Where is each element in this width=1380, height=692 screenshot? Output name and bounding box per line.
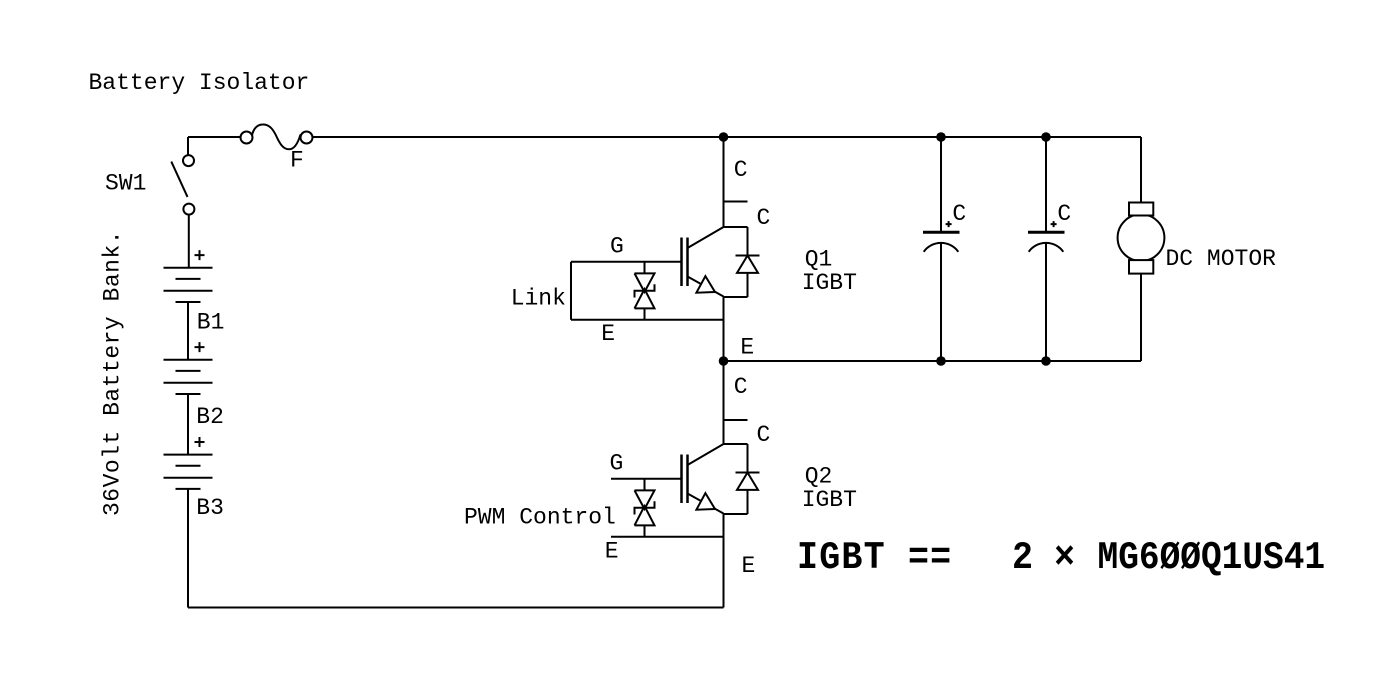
svg-text:E: E: [740, 335, 754, 361]
svg-text:Q1: Q1: [805, 246, 833, 272]
svg-text:C: C: [734, 374, 748, 400]
svg-text:PWM Control: PWM Control: [464, 505, 616, 531]
svg-text:MG6ØØQ1US41: MG6ØØQ1US41: [1098, 536, 1326, 579]
svg-text:G: G: [610, 234, 624, 260]
svg-text:E: E: [742, 553, 756, 579]
svg-text:E: E: [605, 539, 619, 565]
svg-text:B2: B2: [196, 404, 224, 430]
svg-text:SW1: SW1: [105, 171, 146, 197]
svg-text:Link: Link: [511, 286, 566, 312]
svg-text:IGBT: IGBT: [802, 270, 857, 296]
svg-text:B1: B1: [197, 309, 225, 335]
svg-text:B3: B3: [196, 495, 224, 521]
svg-text:Q2: Q2: [805, 463, 833, 489]
svg-text:C: C: [1057, 201, 1071, 227]
svg-text:C: C: [952, 201, 966, 227]
svg-text:36Volt Battery Bank.: 36Volt Battery Bank.: [100, 230, 126, 516]
svg-text:C: C: [757, 422, 771, 448]
svg-text:F: F: [290, 148, 304, 174]
svg-text:IGBT ==: IGBT ==: [797, 536, 952, 580]
svg-text:2 ×: 2 ×: [1012, 536, 1075, 580]
svg-text:E: E: [601, 321, 615, 347]
svg-text:DC MOTOR: DC MOTOR: [1166, 246, 1277, 272]
svg-text:IGBT: IGBT: [802, 487, 857, 513]
svg-text:Battery Isolator: Battery Isolator: [89, 70, 310, 96]
svg-text:G: G: [610, 451, 624, 477]
svg-text:C: C: [757, 205, 771, 231]
svg-text:C: C: [734, 157, 748, 183]
